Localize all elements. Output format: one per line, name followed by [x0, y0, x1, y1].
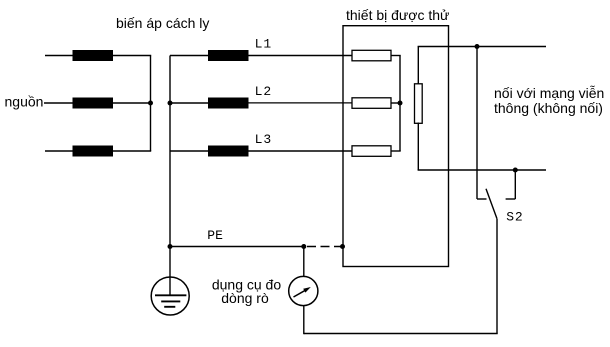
transformer primary winding W3 [73, 146, 114, 157]
switch S2 right contact foot [506, 198, 516, 200]
wire: net L2 from winding W5 to DUT [249, 102, 353, 104]
wire: switch S2 left contact drop [476, 47, 478, 200]
wire: winding W1 to primary star bus [113, 55, 151, 57]
leakage current meter M1 body [289, 276, 318, 305]
telecom interface resistor R4 (vertical) [415, 84, 423, 124]
svg-text:S2: S2 [506, 209, 523, 224]
transformer secondary winding W4 [208, 50, 249, 61]
leakage current meter M1 needle [294, 290, 306, 297]
wire: switch S2 right contact drop [514, 170, 516, 199]
switch S2 blade (open) [486, 189, 497, 219]
wire: switch S2 to bottom return [496, 219, 498, 334]
wire: secondary bus to winding W6 [170, 150, 208, 152]
transformer primary winding W2 [73, 98, 114, 109]
wire: DUT star bus [399, 56, 401, 152]
wire: winding W3 to primary star bus [113, 150, 151, 152]
transformer secondary winding W5 [208, 98, 249, 109]
junction: node B on telecom line B [513, 168, 518, 173]
svg-text:thiết bị được thử: thiết bị được thử [346, 7, 449, 23]
wire: telecom line A (top right) [418, 46, 546, 48]
wire: PE down lead into earth symbol [169, 247, 171, 296]
junction: primary star point [148, 101, 153, 106]
transformer secondary winding W6 [208, 146, 249, 157]
svg-text:nguồn: nguồn [5, 94, 44, 110]
wire: R2 to DUT star bus [391, 102, 401, 104]
junction: secondary star point [168, 101, 173, 106]
junction: DUT star point [398, 101, 403, 106]
wire: winding W2 to primary star bus [113, 102, 151, 104]
DUT load resistor R2 (L2) [352, 98, 391, 109]
wire: secondary star bus (continues down to PE node) [169, 56, 171, 247]
wire: primary star bus [150, 56, 152, 152]
transformer primary winding W1 [73, 50, 114, 61]
wire: R1 to DUT star bus [391, 55, 401, 57]
DUT load resistor R3 (L3) [352, 146, 391, 157]
wire: dashed PE link to DUT [307, 246, 343, 248]
wire: secondary bus to winding W5 [170, 102, 208, 104]
svg-text:biến áp cách ly: biến áp cách ly [116, 15, 209, 31]
protective earth bar 3 [164, 306, 175, 308]
wire: bottom return to meter [304, 333, 498, 335]
wire: source line 1 to primary winding W1 [45, 55, 73, 57]
wire: source line 2 to primary winding W2 [44, 102, 73, 104]
svg-text:L2: L2 [255, 84, 273, 99]
svg-text:nối với mạng viễn: nối với mạng viễn [494, 85, 604, 101]
wire: telecom line B (bottom right) [418, 169, 546, 171]
wire: net L1 from winding W4 to DUT [249, 55, 353, 57]
svg-text:thông (không nối): thông (không nối) [494, 100, 603, 116]
junction: PE node at DUT wall [340, 244, 345, 249]
junction: PE node at meter tap [301, 244, 306, 249]
wire: secondary bus to winding W4 [170, 55, 208, 57]
svg-text:PE: PE [207, 228, 223, 243]
junction: node A on telecom line A [475, 44, 480, 49]
wire: source line 3 to primary winding W3 [45, 150, 73, 152]
wire: R4 bottom lead [417, 123, 419, 171]
protective earth bar 2 [161, 300, 180, 302]
svg-text:L3: L3 [255, 132, 273, 147]
device under test enclosure box [343, 26, 449, 267]
svg-text:L1: L1 [255, 37, 273, 52]
switch S2 left contact foot [477, 198, 487, 200]
wire: R3 to DUT star bus [391, 150, 401, 152]
protective earth symbol circle [151, 277, 189, 315]
wire: R4 top lead [417, 47, 419, 85]
DUT load resistor R1 (L1) [352, 50, 391, 61]
wire: meter top lead [303, 247, 305, 277]
wire: meter bottom lead [303, 306, 305, 335]
wire: PE from transformer to meter node [170, 246, 304, 248]
wire: net L3 from winding W6 to DUT [249, 150, 353, 152]
svg-text:dòng rò: dòng rò [221, 290, 269, 306]
junction: PE node at transformer [168, 244, 173, 249]
protective earth bar 1 [155, 294, 186, 296]
